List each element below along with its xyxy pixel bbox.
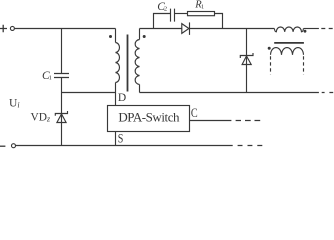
- svg-text:2: 2: [164, 5, 167, 12]
- svg-text:1: 1: [201, 3, 204, 10]
- svg-text:VDz: VDz: [31, 112, 51, 124]
- svg-text:C: C: [191, 105, 198, 120]
- svg-text:S: S: [118, 130, 124, 145]
- svg-text:DPA-Switch: DPA-Switch: [118, 110, 180, 125]
- svg-text:1: 1: [49, 74, 52, 81]
- svg-text:D: D: [118, 92, 126, 104]
- svg-text:Ui: Ui: [9, 97, 20, 109]
